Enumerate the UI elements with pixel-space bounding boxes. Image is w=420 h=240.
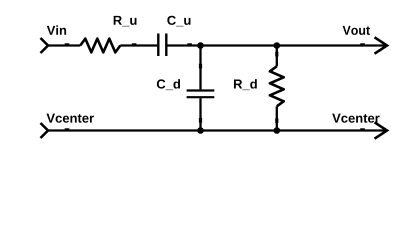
label Vout: [343, 26, 370, 35]
pin dash C_u right pin: [187, 43, 192, 46]
label Vin: [47, 25, 66, 34]
label R_d: [234, 79, 257, 90]
wire R_d to bottom rail: [276, 106, 278, 130]
label C_d: [157, 79, 180, 90]
label Vcenter left: [46, 114, 93, 123]
port Vcenter right (output arrow): [375, 122, 388, 138]
label R_u: [114, 16, 137, 27]
resistor R_u: [80, 39, 120, 53]
pin dash Vout pin: [360, 43, 365, 46]
label C_u: [167, 16, 190, 27]
pin dash R_d bottom pin: [275, 118, 278, 123]
node junction top C_d: [197, 42, 204, 49]
resistor R_d: [270, 66, 284, 106]
port Vcenter left (input chevron): [41, 123, 49, 138]
pin dash bottom rail left: [65, 128, 70, 131]
port Vin (input chevron): [41, 38, 49, 53]
wire bottom rail: [48, 129, 386, 131]
capacitor C_u: [158, 34, 166, 57]
wire junction to R_d: [276, 46, 278, 67]
wire junction to C_d top plate: [199, 46, 201, 90]
wire R_u to C_u: [120, 44, 157, 46]
port Vout (output arrow): [375, 37, 388, 53]
pin dash C_d top pin: [199, 64, 202, 69]
pin dash C_d bottom pin: [199, 118, 202, 123]
node junction bottom C_d: [197, 127, 204, 134]
pin dash bottom rail right: [360, 128, 365, 131]
pin dash R_d top pin: [275, 52, 278, 57]
wire C_u to Vout arrow: [168, 44, 386, 46]
pin dash R_u right pin: [132, 43, 137, 46]
capacitor C_d: [187, 91, 215, 98]
pin dash R_u left pin: [65, 43, 70, 46]
node junction top R_d: [274, 42, 281, 49]
wire C_d bottom plate to bottom rail: [199, 98, 201, 130]
wire Vin to R_u: [48, 44, 80, 46]
label Vcenter right: [332, 114, 379, 123]
node junction bottom R_d: [274, 127, 281, 134]
